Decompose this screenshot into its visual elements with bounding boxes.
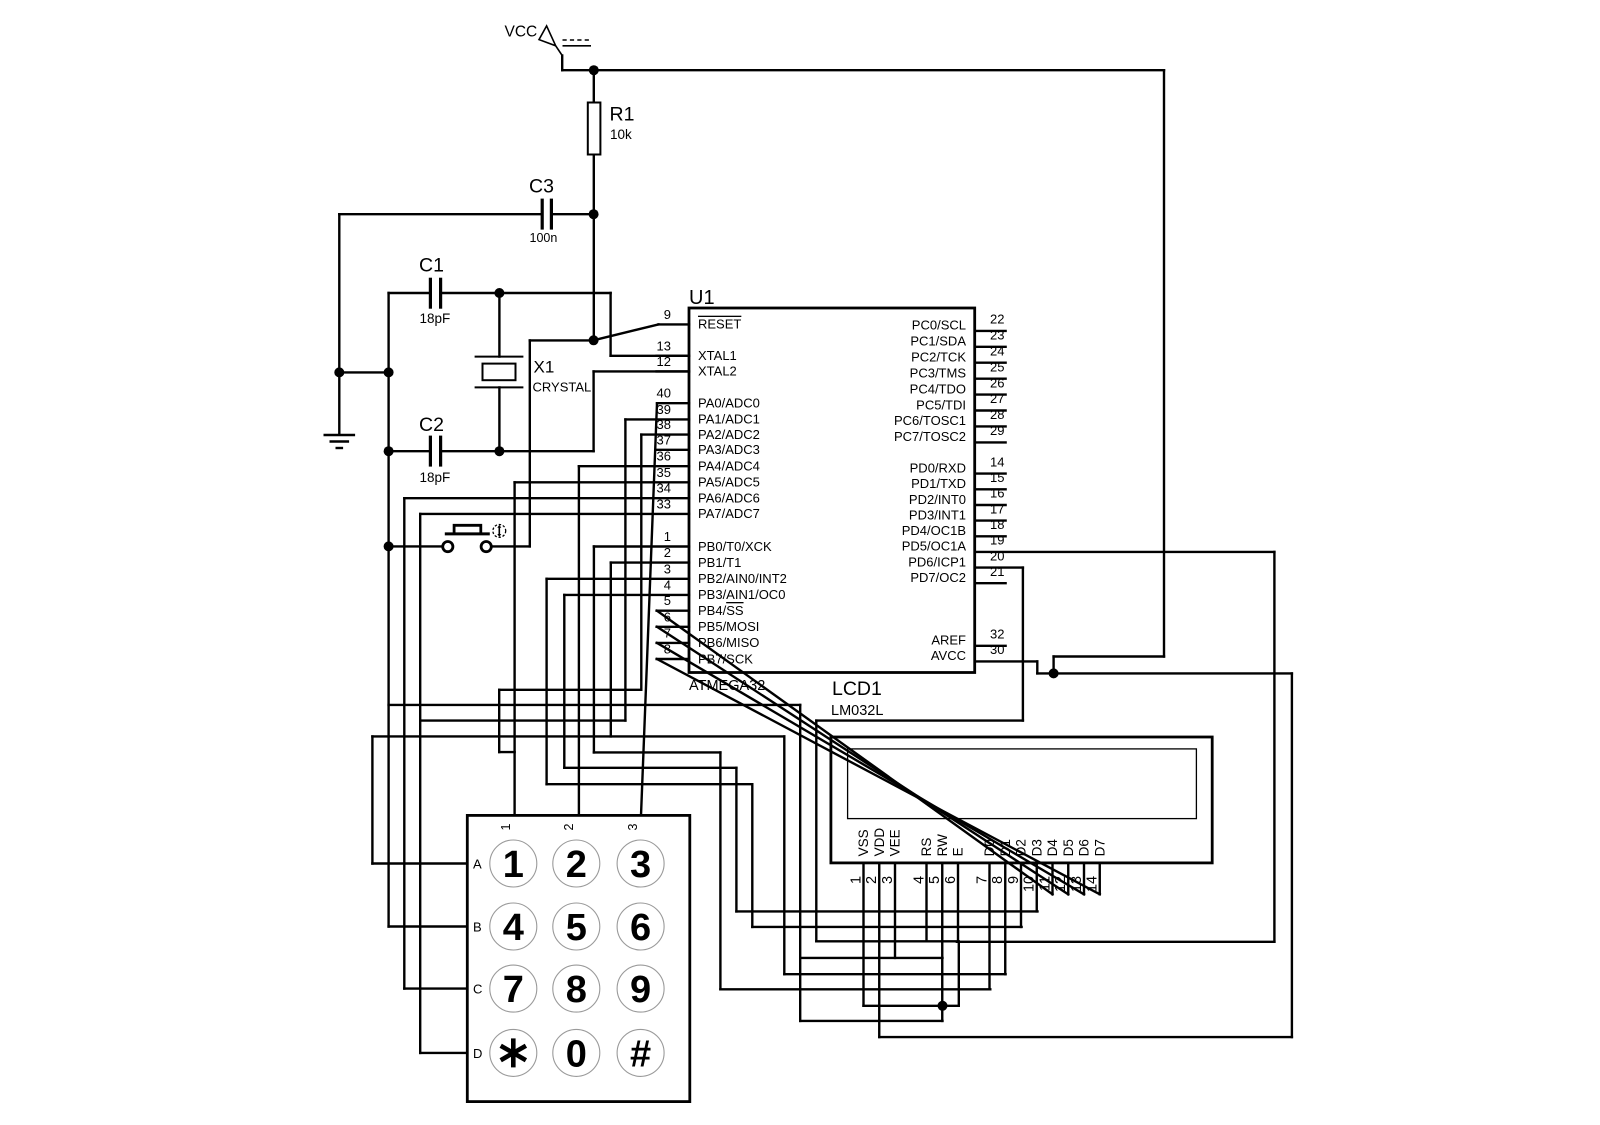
svg-text:9: 9 xyxy=(630,969,651,1011)
svg-text:35: 35 xyxy=(657,465,671,480)
svg-text:29: 29 xyxy=(990,423,1004,438)
svg-text:XTAL2: XTAL2 xyxy=(698,364,737,379)
svg-text:2: 2 xyxy=(864,876,880,884)
svg-text:18pF: 18pF xyxy=(420,470,451,485)
svg-text:9: 9 xyxy=(1006,876,1022,884)
svg-text:C: C xyxy=(473,982,482,997)
svg-text:2: 2 xyxy=(562,823,576,830)
svg-text:25: 25 xyxy=(990,359,1004,374)
svg-text:22: 22 xyxy=(990,312,1004,327)
svg-text:E: E xyxy=(951,847,966,856)
svg-text:17: 17 xyxy=(990,501,1004,516)
svg-text:40: 40 xyxy=(657,386,671,401)
svg-text:7: 7 xyxy=(503,969,524,1011)
svg-text:PC6/TOSC1: PC6/TOSC1 xyxy=(894,413,966,428)
svg-text:6: 6 xyxy=(630,907,651,949)
svg-text:14: 14 xyxy=(990,454,1004,469)
svg-text:19: 19 xyxy=(990,533,1004,548)
svg-text:PD7/OC2: PD7/OC2 xyxy=(910,570,966,585)
svg-text:27: 27 xyxy=(990,391,1004,406)
svg-text:PC1/SDA: PC1/SDA xyxy=(910,334,966,349)
svg-text:8: 8 xyxy=(664,642,671,657)
svg-text:PD1/TXD: PD1/TXD xyxy=(911,476,966,491)
svg-text:6: 6 xyxy=(664,609,671,624)
svg-text:VCC: VCC xyxy=(505,24,538,41)
svg-text:0: 0 xyxy=(566,1033,587,1075)
svg-text:D5: D5 xyxy=(1061,839,1076,856)
svg-text:9: 9 xyxy=(664,307,671,322)
svg-text:PD6/ICP1: PD6/ICP1 xyxy=(908,554,966,569)
svg-text:D0: D0 xyxy=(982,839,997,856)
svg-text:PA3/ADC3: PA3/ADC3 xyxy=(698,442,760,457)
svg-text:U1: U1 xyxy=(689,287,715,309)
svg-text:28: 28 xyxy=(990,407,1004,422)
svg-text:PA7/ADC7: PA7/ADC7 xyxy=(698,506,760,521)
svg-text:5: 5 xyxy=(927,876,943,884)
svg-text:AREF: AREF xyxy=(931,633,966,648)
svg-text:VEE: VEE xyxy=(888,829,903,856)
svg-text:13: 13 xyxy=(1069,876,1085,892)
svg-text:18pF: 18pF xyxy=(420,311,451,326)
svg-text:30: 30 xyxy=(990,642,1004,657)
svg-text:PB0/T0/XCK: PB0/T0/XCK xyxy=(698,539,772,554)
svg-text:PD2/INT0: PD2/INT0 xyxy=(909,492,966,507)
svg-text:39: 39 xyxy=(657,402,671,417)
svg-text:#: # xyxy=(630,1033,651,1075)
svg-text:18: 18 xyxy=(990,517,1004,532)
svg-text:3: 3 xyxy=(664,561,671,576)
svg-text:1: 1 xyxy=(499,823,513,830)
svg-text:D: D xyxy=(473,1046,482,1061)
svg-text:38: 38 xyxy=(657,417,671,432)
svg-text:A: A xyxy=(473,857,482,872)
svg-text:3: 3 xyxy=(626,823,640,830)
svg-text:1: 1 xyxy=(664,529,671,544)
svg-text:D1: D1 xyxy=(998,839,1013,856)
svg-text:34: 34 xyxy=(657,481,671,496)
svg-text:RESET: RESET xyxy=(698,317,741,332)
svg-text:PC2/TCK: PC2/TCK xyxy=(911,350,966,365)
svg-text:CRYSTAL: CRYSTAL xyxy=(533,380,592,395)
svg-text:D2: D2 xyxy=(1014,839,1029,856)
svg-text:36: 36 xyxy=(657,449,671,464)
svg-text:PD3/INT1: PD3/INT1 xyxy=(909,507,966,522)
svg-text:ATMEGA32: ATMEGA32 xyxy=(689,678,765,694)
svg-text:PA2/ADC2: PA2/ADC2 xyxy=(698,427,760,442)
svg-text:11: 11 xyxy=(1037,876,1053,891)
svg-text:15: 15 xyxy=(990,470,1004,485)
svg-text:PB3/AIN1/OC0: PB3/AIN1/OC0 xyxy=(698,587,785,602)
svg-text:LCD1: LCD1 xyxy=(832,678,882,700)
svg-text:X1: X1 xyxy=(534,358,555,377)
svg-text:14: 14 xyxy=(1085,876,1101,892)
svg-text:PD4/OC1B: PD4/OC1B xyxy=(902,523,966,538)
svg-text:12: 12 xyxy=(657,354,671,369)
svg-text:PA6/ADC6: PA6/ADC6 xyxy=(698,491,760,506)
svg-text:6: 6 xyxy=(943,876,959,884)
svg-text:B: B xyxy=(473,920,482,935)
svg-text:PB2/AIN0/INT2: PB2/AIN0/INT2 xyxy=(698,571,787,586)
svg-text:PB6/MISO: PB6/MISO xyxy=(698,635,759,650)
svg-text:2: 2 xyxy=(566,844,587,886)
svg-text:AVCC: AVCC xyxy=(931,648,966,663)
svg-text:XTAL1: XTAL1 xyxy=(698,348,737,363)
svg-text:100n: 100n xyxy=(530,231,558,245)
svg-text:PD5/OC1A: PD5/OC1A xyxy=(902,539,967,554)
svg-text:37: 37 xyxy=(657,432,671,447)
svg-text:D6: D6 xyxy=(1077,839,1092,856)
svg-text:26: 26 xyxy=(990,375,1004,390)
svg-text:3: 3 xyxy=(880,876,896,884)
svg-text:PC3/TMS: PC3/TMS xyxy=(910,366,967,381)
svg-text:4: 4 xyxy=(664,577,671,592)
svg-text:7: 7 xyxy=(974,876,990,884)
svg-text:D4: D4 xyxy=(1045,839,1060,857)
svg-text:R1: R1 xyxy=(610,104,635,126)
svg-text:LM032L: LM032L xyxy=(831,703,883,719)
svg-text:C2: C2 xyxy=(419,414,444,436)
svg-text:VDD: VDD xyxy=(872,828,887,857)
svg-text:PA1/ADC1: PA1/ADC1 xyxy=(698,412,760,427)
svg-text:PB7/SCK: PB7/SCK xyxy=(698,651,753,666)
svg-text:PC5/TDI: PC5/TDI xyxy=(916,397,966,412)
svg-text:10: 10 xyxy=(1022,876,1038,892)
svg-text:D7: D7 xyxy=(1092,839,1107,856)
svg-text:5: 5 xyxy=(566,907,587,949)
svg-text:4: 4 xyxy=(503,907,524,949)
svg-text:1: 1 xyxy=(848,876,864,884)
svg-text:PC0/SCL: PC0/SCL xyxy=(912,318,966,333)
svg-text:33: 33 xyxy=(657,496,671,511)
svg-text:PB1/T1: PB1/T1 xyxy=(698,555,741,570)
svg-text:C1: C1 xyxy=(419,255,444,277)
svg-text:10k: 10k xyxy=(610,127,632,142)
svg-text:8: 8 xyxy=(990,876,1006,884)
svg-text:5: 5 xyxy=(664,593,671,608)
svg-text:2: 2 xyxy=(664,545,671,560)
svg-text:3: 3 xyxy=(630,844,651,886)
svg-text:PC7/TOSC2: PC7/TOSC2 xyxy=(894,429,966,444)
svg-text:23: 23 xyxy=(990,328,1004,343)
svg-text:8: 8 xyxy=(566,969,587,1011)
svg-text:16: 16 xyxy=(990,486,1004,501)
svg-text:RS: RS xyxy=(919,838,934,857)
svg-text:C3: C3 xyxy=(529,176,554,198)
svg-text:PA0/ADC0: PA0/ADC0 xyxy=(698,396,760,411)
svg-text:7: 7 xyxy=(664,625,671,640)
svg-text:PB5/MOSI: PB5/MOSI xyxy=(698,619,759,634)
svg-text:RW: RW xyxy=(935,834,950,857)
svg-text:12: 12 xyxy=(1053,876,1069,892)
svg-text:4: 4 xyxy=(911,876,927,884)
svg-text:PA4/ADC4: PA4/ADC4 xyxy=(698,459,760,474)
svg-text:20: 20 xyxy=(990,548,1004,563)
svg-text:32: 32 xyxy=(990,627,1004,642)
svg-text:PA5/ADC5: PA5/ADC5 xyxy=(698,475,760,490)
svg-text:VSS: VSS xyxy=(856,829,871,856)
svg-text:D3: D3 xyxy=(1029,839,1044,856)
svg-text:21: 21 xyxy=(990,564,1004,579)
svg-text:PB4/SS: PB4/SS xyxy=(698,603,744,618)
svg-text:1: 1 xyxy=(503,844,524,886)
svg-text:13: 13 xyxy=(657,338,671,353)
svg-text:PD0/RXD: PD0/RXD xyxy=(910,460,966,475)
svg-text:PC4/TDO: PC4/TDO xyxy=(910,381,966,396)
svg-text:24: 24 xyxy=(990,343,1004,358)
